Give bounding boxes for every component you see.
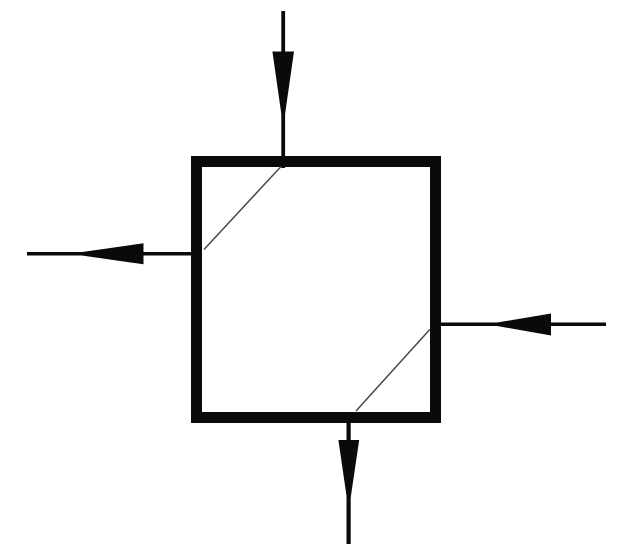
- arrowhead right (pointing left into box): [487, 314, 551, 336]
- wire top (vertical inlet line): [281, 11, 285, 168]
- block body (square box symbol): [197, 162, 436, 418]
- diagonal link top-left (node A to left port): [204, 167, 281, 250]
- arrowhead top (pointing down): [272, 52, 294, 128]
- wire bottom (vertical outlet line): [347, 417, 351, 544]
- wire right (horizontal inlet line): [436, 322, 606, 326]
- arrowhead left (pointing left): [70, 243, 144, 264]
- diagonal link bottom-right (right port to bottom port): [356, 330, 430, 412]
- wire left (horizontal outlet line): [27, 252, 196, 256]
- arrowhead bottom (pointing down): [338, 440, 359, 511]
